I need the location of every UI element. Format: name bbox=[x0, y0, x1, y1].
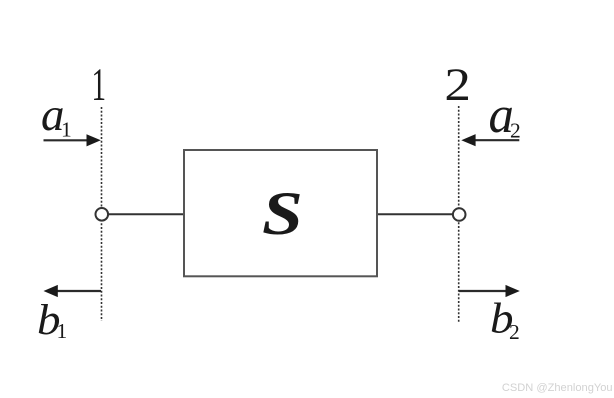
svg-text:1: 1 bbox=[92, 59, 107, 111]
svg-text:2: 2 bbox=[444, 58, 471, 110]
svg-text:S: S bbox=[262, 179, 303, 247]
svg-text:2: 2 bbox=[510, 119, 521, 143]
svg-text:1: 1 bbox=[57, 319, 68, 343]
svg-text:2: 2 bbox=[509, 320, 520, 344]
svg-text:CSDN @ZhenlongYou: CSDN @ZhenlongYou bbox=[502, 382, 613, 394]
svg-text:1: 1 bbox=[61, 118, 72, 142]
